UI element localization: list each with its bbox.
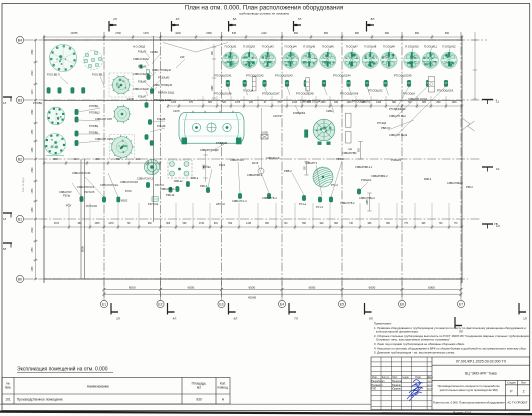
svg-text:6000: 6000: [428, 285, 435, 289]
svg-text:СЗВА.РУ1-4: СЗВА.РУ1-4: [232, 199, 247, 203]
signatures: [407, 380, 423, 401]
svg-text:2340: 2340: [32, 109, 34, 115]
svg-text:4Л: 4Л: [176, 17, 180, 21]
green labels middle: [63, 158, 473, 209]
press unit П.ООЦ410: [404, 45, 420, 69]
svg-text:1Л: 1Л: [523, 317, 527, 321]
left label leaders: [146, 53, 165, 132]
svg-text:1280: 1280: [32, 147, 34, 153]
svg-text:Р2У/С2: Р2У/С2: [155, 183, 164, 187]
filter cluster F1: [84, 51, 103, 70]
right edge section marks: [482, 100, 500, 229]
svg-text:Р.ЗЦ45: Р.ЗЦ45: [138, 80, 147, 84]
svg-text:1350: 1350: [32, 247, 34, 253]
svg-text:В3: В3: [18, 98, 22, 102]
svg-text:Р.ЗЦ42: Р.ЗЦ42: [138, 50, 147, 54]
svg-text:2445: 2445: [367, 199, 369, 205]
tank V3 circle: [45, 134, 66, 156]
svg-text:4674: 4674: [54, 223, 60, 225]
svg-text:Р.ПО8Ц: Р.ПО8Ц: [89, 124, 98, 128]
right outside vertical dim: [473, 32, 477, 99]
svg-text:С2ОУ2: С2ОУ2: [273, 114, 282, 118]
building walls: [44, 36, 462, 283]
svg-text:Р.ПО8Ц: Р.ПО8Ц: [89, 104, 98, 108]
svg-text:РП.ООЦ/О2А1: РП.ООЦ/О2А1: [214, 74, 232, 78]
svg-text:П.ООЦ47: П.ООЦ47: [346, 45, 358, 49]
svg-text:Ф98-2: Ф98-2: [424, 177, 432, 181]
svg-text:9Л: 9Л: [459, 330, 463, 334]
partition wall: [81, 159, 85, 279]
press unit П.ООЦ42: [241, 45, 257, 69]
svg-text:РП.ООЦ/О2А8: РП.ООЦ/О2А8: [296, 92, 314, 96]
small bins: [140, 65, 150, 74]
экспликация table: [2, 365, 230, 404]
svg-text:5Л: 5Л: [3, 247, 6, 251]
svg-text:СЗВА/РФВ-2.1: СЗВА/РФВ-2.1: [355, 165, 373, 169]
bottom axis bubbles: [100, 300, 464, 307]
svg-text:трубопроводы условно не показа: трубопроводы условно не показаны: [239, 12, 289, 16]
svg-text:Р.ПО8Ц: Р.ПО8Ц: [33, 101, 42, 105]
title block small grid: [371, 357, 432, 410]
press unit П.ООЦ44: [282, 45, 298, 69]
roof brace V: [163, 43, 228, 53]
blower W1: [313, 119, 335, 145]
svg-text:№док.: №док.: [402, 376, 409, 379]
svg-text:РП.ООЦ/О2А4: РП.ООЦ/О2А4: [333, 74, 351, 78]
svg-text:СЗВА/Р.ПВ2: СЗВА/Р.ПВ2: [342, 151, 357, 155]
svg-text:2: 2: [523, 390, 525, 394]
svg-text:10: 10: [496, 167, 500, 171]
svg-text:1280: 1280: [32, 266, 34, 272]
svg-text:6000: 6000: [188, 285, 195, 289]
svg-text:РП.ООД.ЗЗЦ1: РП.ООД.ЗЗЦ1: [154, 98, 172, 102]
vertical unit U2: [305, 130, 308, 138]
svg-text:СЗВА.Р98в-2: СЗВА.Р98в-2: [359, 196, 375, 200]
svg-text:П.ООЦ49: П.ООЦ49: [383, 45, 395, 49]
svg-text:РП.ООЦ/О2А: РП.ООЦ/О2А: [437, 88, 453, 92]
svg-text:Ф98-а: Ф98-а: [191, 176, 199, 180]
svg-text:ВЦ "ЭМО-АРК" Томск: ВЦ "ЭМО-АРК" Томск: [465, 372, 497, 376]
svg-text:Е6: Е6: [400, 302, 404, 306]
svg-text:1300: 1300: [52, 159, 58, 161]
svg-text:П.ООЦ48: П.ООЦ48: [364, 45, 376, 49]
svg-text:24.25: 24.25: [427, 381, 433, 383]
svg-text:8Л: 8Л: [371, 17, 375, 21]
svg-text:Р.ЗЦ47: Р.ЗЦ47: [138, 95, 147, 99]
svg-text:Р.ОО.ВБ.Л: Р.ОО.ВБ.Л: [47, 73, 60, 77]
svg-text:РОУ: РОУ: [66, 204, 72, 208]
svg-text:РОУ2: РОУ2: [125, 189, 132, 193]
svg-text:1Л: 1Л: [3, 101, 6, 105]
wall break mark: [462, 118, 475, 131]
press unit П.ООЦ45: [301, 45, 317, 69]
vertical dim ticks mid: [203, 47, 216, 178]
svg-text:6000: 6000: [129, 285, 136, 289]
svg-text:СЗВА.Р124: СЗВА.Р124: [230, 158, 244, 162]
svg-text:1245: 1245: [451, 102, 457, 104]
svg-text:6Л: 6Л: [234, 317, 238, 321]
svg-text:СЗВА.РОУ/СЗ2: СЗВА.РОУ/СЗ2: [72, 171, 91, 175]
svg-text:Р2У/С2б: Р2У/С2б: [84, 190, 95, 194]
svg-text:960: 960: [324, 32, 329, 35]
leader fan labels: [150, 68, 175, 102]
svg-text:Р.Зба/19: Р.Зба/19: [391, 158, 402, 162]
svg-text:2445: 2445: [212, 85, 214, 91]
svg-text:930: 930: [196, 398, 202, 402]
svg-text:СЗВА/РФВ2.2: СЗВА/РФВ2.2: [371, 174, 388, 178]
svg-text:РП.ООЦ/О2А6: РП.ООЦ/О2А6: [214, 92, 232, 96]
equipment stand 2: [306, 78, 310, 91]
svg-text:1445: 1445: [346, 102, 352, 104]
svg-text:240: 240: [180, 55, 185, 59]
svg-text:СЗВА.РОУ/СЗ: СЗВА.РОУ/СЗ: [77, 185, 94, 189]
svg-text:7Л: 7Л: [298, 17, 302, 21]
svg-text:2390: 2390: [32, 70, 34, 76]
svg-text:РП.ООЦ/ООА9: РП.ООЦ/ООА9: [340, 92, 359, 96]
svg-text:С2ОУ: С2ОУ: [173, 109, 180, 113]
svg-text:5. Диапазон трубопроводов - см: 5. Диапазон трубопроводов - см. аксономе…: [374, 351, 455, 355]
svg-text:АС ТХ.ПРОЕКТ: АС ТХ.ПРОЕКТ: [507, 401, 527, 405]
svg-text:Ф2б2: Ф2б2: [121, 199, 128, 203]
inner dimension chain: [43, 225, 463, 229]
svg-text:1470: 1470: [171, 102, 177, 104]
svg-text:В0: В0: [18, 277, 22, 281]
svg-text:С2О8: С2О8: [127, 97, 134, 101]
svg-text:1560: 1560: [206, 32, 212, 35]
svg-text:Ф2-Ф: Ф2-Ф: [252, 161, 258, 165]
svg-text:960: 960: [415, 32, 420, 35]
svg-text:6000: 6000: [81, 246, 85, 252]
coil vessel K1: [312, 166, 333, 187]
svg-text:11: 11: [496, 100, 499, 104]
bottom section marks: [111, 303, 296, 315]
svg-text:РУ1.2: РУ1.2: [316, 205, 323, 209]
press unit П.ООЦ411: [422, 45, 438, 69]
svg-text:РАЙОН.ЗЗЦ1: РАЙОН.ЗЗЦ1: [158, 91, 175, 95]
pilaster stands: [346, 113, 352, 143]
scattered pumps: [80, 181, 361, 202]
svg-text:0.000: 0.000: [261, 130, 268, 134]
small vertical dims right: [358, 142, 371, 212]
svg-text:м2: м2: [197, 386, 201, 390]
svg-text:2740: 2740: [199, 223, 205, 225]
svg-text:Е4: Е4: [280, 302, 284, 306]
svg-text:2340: 2340: [32, 167, 34, 173]
horizontal tank T1: [179, 111, 244, 145]
svg-text:6000: 6000: [369, 285, 376, 289]
svg-text:Р.ПО8Ц2: Р.ПО8Ц2: [89, 111, 100, 115]
bottom dimension chain 6000: [103, 281, 463, 301]
svg-text:П.ООЦ410: П.ООЦ410: [405, 45, 419, 49]
svg-text:Р.Зба/19: Р.Зба/19: [361, 178, 372, 182]
svg-text:Р.ЗЦ48: Р.ЗЦ48: [157, 117, 166, 121]
svg-text:СЗВА.РП.ОУ82: СЗВА.РП.ОУ82: [95, 137, 114, 141]
svg-text:В4: В4: [18, 38, 22, 42]
svg-text:П.ООЦ411: П.ООЦ411: [424, 45, 438, 49]
svg-text:РП.ООЦ/О2: РП.ООЦ/О2: [368, 89, 383, 93]
svg-text:СЗВА.ТР.ЗЗЦ43: СЗВА.ТР.ЗЗЦ43: [153, 83, 173, 87]
svg-text:УВ: УВ: [494, 222, 498, 226]
svg-text:4Л: 4Л: [173, 317, 177, 321]
svg-text:РУ1-а: РУ1-а: [299, 202, 307, 206]
svg-text:Подп.: Подп.: [415, 376, 422, 379]
svg-text:8Л: 8Л: [369, 317, 373, 321]
left label column texts: [133, 50, 207, 198]
inner wall line: [153, 36, 155, 222]
svg-text:Дата: Дата: [427, 376, 433, 379]
svg-text:Юдаков: Юдаков: [392, 388, 401, 391]
svg-text:РП.ООЦ/О2А2: РП.ООЦ/О2А2: [246, 74, 264, 78]
tank V2 circle: [47, 107, 65, 125]
svg-text:1345: 1345: [376, 102, 382, 104]
svg-text:Юдаков: Юдаков: [392, 384, 401, 387]
svg-text:РП.ЗЦ4: РП.ЗЦ4: [377, 121, 387, 125]
pump labels row: [214, 74, 453, 104]
label leader lines: [60, 54, 448, 197]
svg-text:РОУ/СЗ4: РОУ/СЗ4: [86, 204, 97, 208]
svg-text:Инв. № подл.: Инв. № подл.: [22, 177, 25, 192]
svg-text:РП.ООЦ/О2А3: РП.ООЦ/О2А3: [275, 74, 293, 78]
svg-text:1370: 1370: [143, 32, 149, 35]
notes text: [374, 322, 530, 355]
pump column C: [145, 75, 154, 146]
svg-text:960: 960: [385, 32, 390, 35]
svg-text:960: 960: [355, 32, 360, 35]
svg-text:П.ООЦ44: П.ООЦ44: [285, 45, 297, 49]
svg-text:СЗВА.ТР.ЗЗЦ42: СЗВА.ТР.ЗЗЦ42: [152, 68, 172, 72]
svg-text:1132: 1132: [136, 159, 142, 161]
svg-text:2390: 2390: [32, 227, 34, 233]
svg-text:Р.ЗЦ43: Р.ЗЦ43: [138, 65, 147, 69]
left dimension chain: [43, 161, 161, 165]
svg-text:Р124: Р124: [219, 163, 226, 167]
svg-text:Р.ЗЦ49: Р.ЗЦ49: [157, 124, 166, 128]
svg-text:С2ВА: С2ВА: [326, 109, 333, 113]
left vertical dimension: [33, 39, 37, 280]
svg-text:2279: 2279: [108, 223, 114, 225]
svg-text:СЗВА/Р2-Ф: СЗВА/Р2-Ф: [266, 156, 280, 160]
press unit П.ООЦ41: [222, 45, 238, 69]
svg-text:3445: 3445: [203, 164, 205, 170]
svg-text:Ф98-а2: Ф98-а2: [174, 179, 183, 183]
svg-text:Кол.уч.: Кол.уч.: [382, 376, 390, 379]
left axis bubbles: [16, 36, 23, 282]
press unit П.ООЦ47: [344, 45, 360, 69]
svg-text:В2: В2: [18, 157, 22, 161]
equipment stand 3: [429, 77, 435, 93]
svg-text:Е2: Е2: [158, 302, 162, 306]
svg-text:П.ООЦ46: П.ООЦ46: [322, 45, 334, 49]
svg-text:1Л: 1Л: [3, 217, 6, 221]
press unit П.ООЦ43: [260, 45, 276, 69]
svg-text:6000: 6000: [309, 285, 316, 289]
small circle node: [258, 168, 264, 174]
pump row A: [47, 88, 85, 94]
svg-text:24.25: 24.25: [427, 385, 433, 387]
equipment labels left: [33, 45, 408, 208]
press unit П.ООЦ412: [441, 45, 457, 69]
svg-text:101: 101: [5, 398, 11, 402]
svg-text:Р.ЗЗВ2/Б2: Р.ЗЗВ2/Б2: [293, 111, 306, 115]
pump column B: [75, 109, 78, 145]
svg-text:Изм.: Изм.: [372, 376, 377, 379]
tank V1 circle: [50, 45, 77, 72]
svg-text:СЗВА.РОУ: СЗВА.РОУ: [59, 190, 72, 194]
extension lines: [69, 44, 449, 226]
elevation mark 0.000: [261, 130, 268, 139]
svg-text:Е1: Е1: [102, 302, 106, 306]
top dimension chain: [43, 35, 463, 39]
press unit П.ООЦ46: [320, 45, 336, 69]
svg-text:Е5: Е5: [340, 302, 344, 306]
svg-text:помещ.: помещ.: [218, 386, 229, 390]
svg-text:С20В2: С20В2: [150, 50, 158, 54]
svg-text:Н.О.О8Ц2: Н.О.О8Ц2: [133, 45, 146, 49]
svg-text:1350: 1350: [32, 129, 34, 135]
svg-text:Стадия: Стадия: [507, 382, 516, 385]
drawing title: [185, 5, 343, 16]
svg-text:2Л: 2Л: [113, 17, 117, 21]
left edge section marks: [3, 97, 12, 248]
svg-text:В1: В1: [18, 217, 22, 221]
svg-text:Е3: Е3: [219, 302, 223, 306]
svg-text:Экспликация помещений на отм.: Экспликация помещений на отм. 0.000: [17, 365, 108, 372]
svg-text:СЗВА.РП.ЗЦ4: СЗВА.РП.ЗЦ4: [389, 114, 406, 118]
svg-text:РГ.ЗЗЦ42: РГ.ЗЗЦ42: [158, 76, 170, 80]
svg-text:П.ООЦ42: П.ООЦ42: [243, 45, 255, 49]
svg-text:П.ООЦ43: П.ООЦ43: [262, 45, 274, 49]
svg-text:СЗВА.РП.ОУ8: СЗВА.РП.ОУ8: [95, 117, 112, 121]
svg-text:960: 960: [294, 32, 299, 35]
top section marks: [109, 21, 374, 32]
svg-text:Наименование: Наименование: [87, 385, 109, 389]
mixer M2 gear: [113, 105, 131, 124]
press unit П.ООЦ48: [362, 45, 378, 69]
svg-text:2415: 2415: [292, 102, 298, 104]
press unit П.ООЦ49: [381, 45, 397, 69]
svg-text:24.25: 24.25: [427, 389, 433, 391]
svg-text:СЗВА.Р.ЗЦ44: СЗВА.Р.ЗЦ44: [133, 72, 149, 76]
svg-text:Лист: Лист: [521, 382, 527, 385]
svg-text:СЗВА.РУ8-4: СЗВА.РУ8-4: [262, 196, 277, 200]
svg-text:13785: 13785: [71, 32, 79, 35]
svg-text:1545: 1545: [320, 102, 326, 104]
svg-text:7Л: 7Л: [294, 317, 298, 321]
svg-text:960: 960: [445, 32, 450, 35]
svg-text:1635: 1635: [94, 223, 100, 225]
svg-text:Р.ОО.ВБ.Л: Р.ОО.ВБ.Л: [92, 73, 105, 77]
svg-text:Мазалов: Мазалов: [392, 380, 402, 383]
svg-text:РП.ООЦ/О2А7: РП.ООЦ/О2А7: [262, 92, 280, 96]
svg-text:Р98-4: Р98-4: [200, 184, 207, 188]
svg-text:СЗВА.Р98-4: СЗВА.Р98-4: [160, 187, 175, 191]
svg-text:Производственное помещение: Производственное помещение: [17, 398, 63, 402]
svg-text:П.ООЦ41: П.ООЦ41: [225, 45, 237, 49]
svg-text:1270: 1270: [32, 89, 34, 95]
svg-text:План на отм. 0.000. План распо: План на отм. 0.000. План расположения об…: [433, 401, 505, 405]
svg-text:Е7: Е7: [459, 302, 463, 306]
svg-text:СЗВА.Р2У/С2а: СЗВА.Р2У/С2а: [100, 183, 118, 187]
svg-text:1310: 1310: [73, 159, 79, 161]
equipment stand 1: [252, 77, 256, 91]
svg-text:2790: 2790: [115, 32, 121, 35]
svg-text:Лист: Лист: [392, 376, 398, 379]
svg-text:1435: 1435: [246, 223, 252, 225]
svg-text:СЗВА.Р.ЗЦ46: СЗВА.Р.ЗЦ46: [133, 87, 149, 91]
column grid lines: [104, 32, 461, 297]
svg-text:РП.ООЦ/О2А5: РП.ООЦ/О2А5: [394, 74, 412, 78]
svg-text:07.001/КР.1.2025.09.02.000 ТХ: 07.001/КР.1.2025.09.02.000 ТХ: [456, 360, 507, 364]
svg-text:СЗВА.РУ8.2: СЗВА.РУ8.2: [340, 201, 355, 205]
svg-text:Формат А2х3: Формат А2х3: [453, 410, 472, 414]
mid vertical dim 500: [304, 162, 308, 176]
svg-text:1475: 1475: [235, 102, 241, 104]
svg-text:СЗВА.Р98а-2: СЗВА.Р98а-2: [447, 181, 463, 185]
mixer M3 gear: [110, 135, 135, 160]
mixer M1 gear: [109, 73, 133, 97]
svg-text:СЗВА.РП.ООЦ2: СЗВА.РП.ООЦ2: [408, 97, 428, 101]
svg-text:СЗВА/РФВ-2: СЗВА/РФВ-2: [247, 173, 263, 177]
svg-text:П.ООЦ45: П.ООЦ45: [303, 45, 315, 49]
svg-text:2ЛУ/С2: 2ЛУ/С2: [216, 202, 225, 206]
svg-text:РФВ-2: РФВ-2: [336, 157, 344, 161]
svg-text:Р2Уф: Р2Уф: [63, 194, 71, 198]
svg-text:П.ООЦ412: П.ООЦ412: [442, 45, 456, 49]
svg-text:Р98.2: Р98.2: [466, 185, 473, 189]
svg-text:536: 536: [232, 32, 237, 35]
svg-text:План на отм. 0.000. План распо: План на отм. 0.000. План расположения об…: [185, 5, 343, 12]
svg-text:т2н: т2н: [348, 147, 353, 151]
bottom right flags: [365, 303, 527, 334]
title block: [371, 357, 530, 410]
svg-text:Проверил: Проверил: [371, 384, 383, 387]
svg-text:42000: 42000: [248, 295, 257, 299]
svg-text:1280: 1280: [32, 207, 34, 213]
svg-text:1350: 1350: [32, 188, 34, 194]
svg-text:6000: 6000: [248, 285, 255, 289]
faint stamp: [22, 177, 25, 192]
svg-text:П.ООЦ4: П.ООЦ4: [243, 89, 254, 93]
mid dimension chain: [167, 104, 463, 108]
svg-text:2340: 2340: [32, 49, 34, 55]
row grid lines: [24, 40, 497, 279]
svg-text:СЗВА.Р.ЗЦ42: СЗВА.Р.ЗЦ42: [133, 57, 149, 61]
pump row under presses: [226, 80, 448, 86]
svg-text:6Л: 6Л: [233, 17, 237, 21]
svg-text:Разработал: Разработал: [371, 380, 385, 383]
pump leader lines: [228, 87, 389, 96]
svg-text:СЗВА.Р2У/С2Л: СЗВА.Р2У/С2Л: [120, 180, 138, 184]
svg-text:растительных масел (для произв: растительных масел (для производства ЭМ): [440, 388, 498, 392]
svg-text:СЗВА.Р2У/С2: СЗВА.Р2У/С2: [137, 177, 154, 181]
svg-text:4230: 4230: [175, 32, 181, 35]
svg-text:пом.: пом.: [5, 386, 12, 390]
svg-text:1300: 1300: [94, 159, 100, 161]
svg-text:ГИП: ГИП: [371, 388, 376, 391]
svg-text:1132: 1132: [261, 32, 267, 35]
svg-text:2Л: 2Л: [116, 317, 120, 321]
separator S1: [144, 159, 159, 174]
platform P1 dashed: [168, 160, 192, 178]
svg-text:РП.ЗЗЦ/ЗЦ42: РП.ЗЗЦ/ЗЦ42: [389, 107, 406, 111]
svg-text:РФВ-2: РФВ-2: [284, 169, 292, 173]
svg-text:Р98-42: Р98-42: [166, 193, 175, 197]
